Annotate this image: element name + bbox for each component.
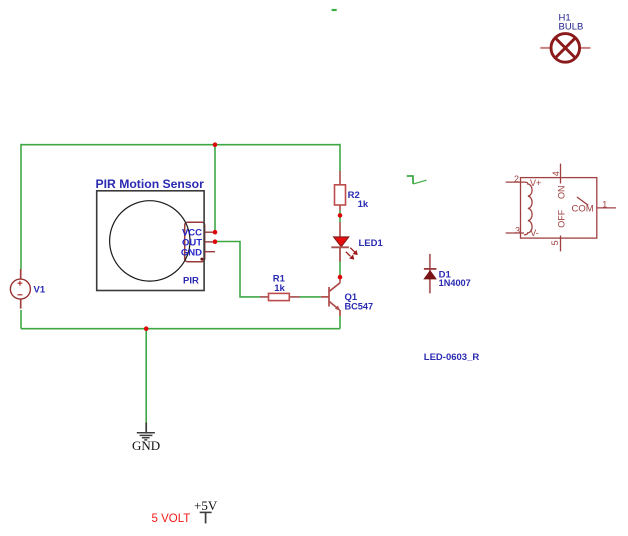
- svg-text:1k: 1k: [274, 283, 285, 294]
- svg-text:ON: ON: [557, 186, 567, 200]
- svg-text:PIR: PIR: [183, 276, 199, 287]
- svg-text:BULB: BULB: [559, 22, 584, 33]
- svg-text:5: 5: [550, 240, 560, 245]
- svg-text:BC547: BC547: [345, 302, 374, 312]
- svg-text:5 VOLT: 5 VOLT: [152, 513, 191, 525]
- svg-text:1k: 1k: [358, 199, 369, 210]
- svg-text:1N4007: 1N4007: [439, 278, 471, 288]
- svg-text:+5V: +5V: [194, 498, 218, 513]
- svg-text:4: 4: [551, 171, 561, 176]
- svg-text:GND: GND: [132, 438, 160, 453]
- svg-text:LED-0603_R: LED-0603_R: [424, 352, 480, 363]
- svg-text:2: 2: [514, 174, 519, 184]
- svg-text:3: 3: [515, 226, 520, 236]
- svg-text:V+: V+: [530, 178, 541, 188]
- svg-text:LED1: LED1: [359, 238, 384, 249]
- svg-text:OFF: OFF: [557, 209, 567, 227]
- svg-text:V-: V-: [530, 228, 539, 238]
- svg-text:GND: GND: [181, 248, 202, 259]
- svg-text:V1: V1: [34, 284, 46, 295]
- svg-text:COM: COM: [572, 204, 594, 215]
- svg-text:PIR Motion Sensor: PIR Motion Sensor: [96, 177, 205, 191]
- svg-text:1: 1: [602, 199, 607, 209]
